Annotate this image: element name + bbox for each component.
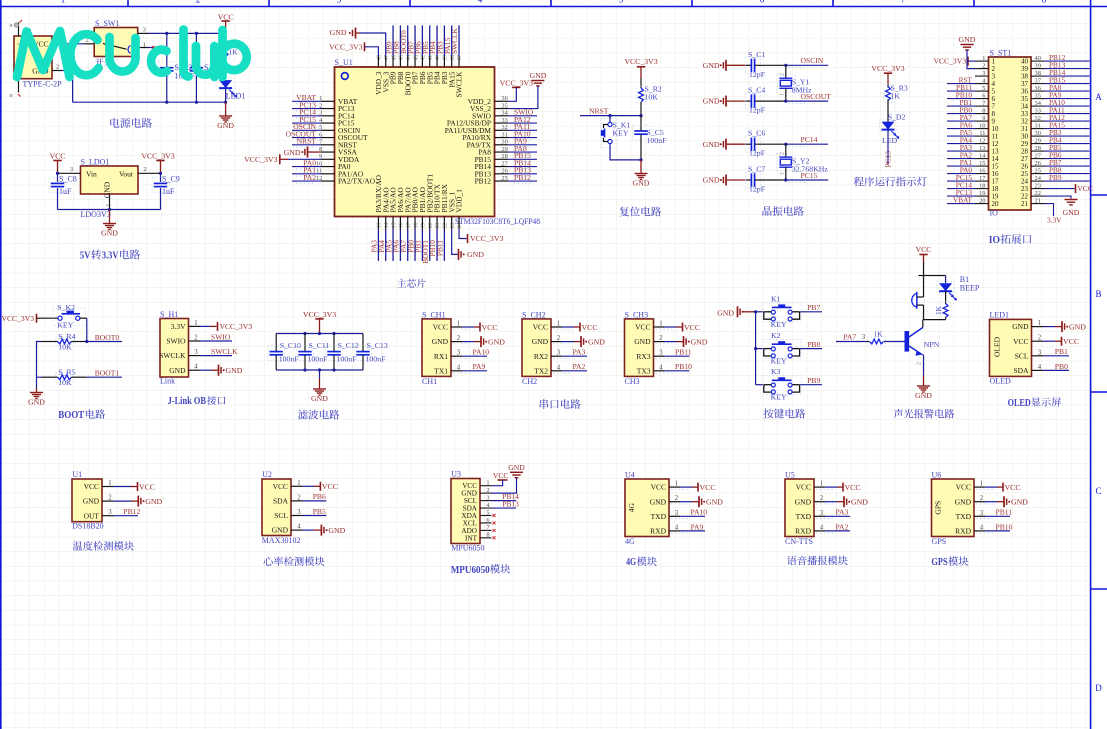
svg-text:17: 17 [979, 175, 986, 182]
resistor R2 10K [637, 79, 662, 116]
svg-text:KEY: KEY [57, 321, 73, 330]
svg-text:NRST: NRST [589, 107, 609, 116]
svg-text:TXD: TXD [796, 512, 812, 521]
svg-text:U4: U4 [625, 471, 635, 480]
power port VCC (power circuit) [218, 13, 234, 34]
title CN-TTS [787, 556, 848, 565]
svg-text:3: 3 [337, 0, 342, 5]
svg-text:47: 47 [384, 55, 390, 61]
svg-text:7: 7 [901, 0, 906, 5]
svg-text:3: 3 [297, 509, 301, 516]
svg-text:8: 8 [486, 532, 489, 539]
svg-text:14: 14 [979, 153, 986, 160]
svg-text:VCC_3V3: VCC_3V3 [244, 155, 277, 164]
svg-text:GND: GND [1063, 208, 1080, 217]
svg-text:38: 38 [450, 55, 456, 61]
svg-text:2: 2 [56, 64, 59, 71]
svg-text:1K: 1K [935, 305, 943, 315]
svg-text:VCC_3V3: VCC_3V3 [624, 57, 657, 66]
svg-text:1K: 1K [874, 331, 884, 339]
svg-text:GND: GND [703, 176, 720, 185]
svg-text:12pF: 12pF [749, 149, 766, 158]
net SWIO wire (J-Link pin 2) [200, 332, 232, 341]
U1 top net labels [384, 25, 459, 55]
svg-text:CN-TTS: CN-TTS [785, 537, 813, 546]
net BOOT0 wire [85, 333, 122, 343]
svg-text:PB10: PB10 [675, 362, 692, 371]
svg-text:21: 21 [435, 222, 441, 228]
svg-text:GND: GND [145, 497, 162, 506]
svg-text:Vin: Vin [86, 170, 97, 179]
svg-text:S_CH2: S_CH2 [522, 310, 546, 319]
key K2 [756, 331, 802, 366]
svg-text:SWIO: SWIO [211, 332, 231, 341]
svg-text:S_SW1: S_SW1 [95, 19, 119, 28]
svg-text:22: 22 [1035, 190, 1041, 197]
svg-text:GND: GND [529, 71, 546, 80]
net PB7 wire (key K1) [800, 303, 822, 312]
net PA10 wire (CH1 pin 3) [453, 348, 489, 359]
svg-text:3.3V: 3.3V [102, 250, 119, 262]
svg-text:VCC: VCC [915, 245, 931, 254]
svg-text:18: 18 [979, 183, 985, 190]
svg-text:SCL: SCL [1015, 351, 1029, 360]
svg-text:GND: GND [703, 140, 720, 149]
power port VCC_3V3 (U1 pin 48 VDD_3) [329, 42, 378, 55]
wire T1 GND down to bottom rail [52, 71, 73, 103]
svg-text:GND: GND [226, 366, 243, 375]
net PA3 wire (CH2 pin 3) [553, 348, 587, 359]
title main chip [397, 279, 426, 288]
power port VCC (CH1 pin 1) [453, 323, 498, 332]
svg-text:TX1: TX1 [434, 366, 448, 375]
svg-text:VCC_3V3: VCC_3V3 [220, 322, 253, 331]
svg-text:100nF: 100nF [366, 355, 387, 364]
svg-text:S_C8: S_C8 [59, 175, 77, 184]
svg-text:OSCIN: OSCIN [801, 56, 824, 65]
svg-text:VCC: VCC [1005, 483, 1021, 492]
svg-text:1: 1 [980, 481, 983, 488]
svg-text:1: 1 [780, 172, 786, 175]
svg-text:100nF: 100nF [279, 355, 300, 364]
svg-text:1: 1 [105, 203, 112, 206]
svg-text:LED: LED [882, 136, 898, 145]
svg-text:9: 9 [982, 115, 985, 122]
net PA7 wire with resistor R6 1K [836, 331, 903, 346]
svg-text:VCC_3V3: VCC_3V3 [470, 234, 503, 243]
power port VCC (U5 pin 1) [816, 483, 861, 492]
ground GND (C7 left) [703, 175, 746, 186]
svg-text:2: 2 [108, 495, 112, 502]
BOOT left bus wire [37, 342, 43, 389]
svg-text:D: D [1095, 683, 1102, 693]
svg-text:33: 33 [1035, 108, 1041, 115]
svg-text:4: 4 [557, 364, 561, 371]
svg-text:GND: GND [101, 229, 118, 238]
svg-text:S_R4: S_R4 [58, 332, 75, 341]
svg-text:SWCLK: SWCLK [455, 71, 464, 98]
svg-text:GND: GND [1012, 322, 1029, 331]
net OSCOUT wire [784, 92, 831, 103]
svg-text:34: 34 [1035, 100, 1042, 107]
power port VCC (OLED pin 2) [1043, 337, 1079, 346]
svg-text:30: 30 [1035, 130, 1041, 137]
svg-text:GND: GND [703, 97, 720, 106]
power port VCC (U6 pin 1) [976, 483, 1021, 492]
svg-text:1: 1 [297, 480, 300, 487]
transistor Q1 NPN [903, 320, 940, 376]
net PB6 wire (U2 pin 2) [303, 492, 327, 501]
svg-text:28: 28 [1035, 145, 1041, 152]
svg-text:GND: GND [634, 337, 651, 346]
svg-text:S_C4: S_C4 [748, 86, 765, 95]
key K1 [756, 294, 802, 329]
svg-text:1: 1 [820, 481, 823, 488]
power port VCC_3V3 (filter) [303, 310, 336, 333]
svg-text:SDA: SDA [273, 497, 289, 506]
svg-text:PB13: PB13 [502, 500, 519, 509]
svg-text:2: 2 [143, 166, 146, 173]
svg-text:3: 3 [659, 350, 663, 357]
svg-text:+: + [911, 297, 915, 304]
svg-text:PB9: PB9 [1049, 173, 1062, 182]
connector T1 TYPE-C-2P [10, 20, 63, 99]
svg-text:SDA: SDA [1013, 366, 1029, 375]
svg-text:20: 20 [992, 200, 1000, 208]
net PA3 wire (U5 pin 3) [816, 508, 850, 519]
svg-text:S_CH3: S_CH3 [625, 310, 649, 319]
U1 left pin names [338, 97, 376, 186]
svg-text:B: B [1095, 289, 1101, 299]
svg-text:GND: GND [703, 61, 720, 70]
svg-text:48: 48 [377, 55, 383, 61]
svg-text:GPS: GPS [932, 537, 947, 546]
svg-text:VCC: VCC [273, 482, 288, 491]
svg-text:RX1: RX1 [434, 352, 448, 361]
svg-text:1: 1 [659, 321, 662, 328]
capacitor C13 100nF [355, 334, 388, 371]
power port VCC (ST1 pin 23) [1045, 184, 1093, 193]
svg-text:42: 42 [421, 55, 427, 61]
svg-text:CH2: CH2 [522, 377, 537, 386]
svg-text:OLED: OLED [1008, 398, 1031, 409]
capacitor C2 100nF [159, 33, 196, 102]
capacitor C4 12pF [746, 86, 786, 115]
svg-text:25: 25 [1035, 168, 1041, 175]
svg-text:S_LDO1: S_LDO1 [81, 158, 110, 167]
svg-text:VCC: VCC [1063, 337, 1079, 346]
capacitor C11 100nF [297, 334, 330, 371]
svg-text:VCC_3V3: VCC_3V3 [934, 57, 967, 66]
title J-Link OB port [168, 396, 226, 407]
svg-text:27: 27 [501, 160, 508, 167]
wire LDO pin 2 Vout [138, 166, 162, 175]
svg-text:2: 2 [1038, 335, 1042, 342]
svg-text:PA2: PA2 [573, 362, 586, 371]
svg-text:OLED: OLED [990, 376, 1012, 385]
svg-text:4G: 4G [625, 537, 635, 546]
crystal Y2 32.768KHz [777, 144, 829, 180]
svg-text:VCC: VCC [651, 483, 666, 492]
net PC15 wire [784, 171, 828, 182]
svg-text:23: 23 [1035, 183, 1041, 190]
svg-text:GND: GND [103, 181, 112, 198]
svg-text:VCC: VCC [218, 13, 234, 22]
svg-text:U2: U2 [262, 470, 272, 479]
svg-text:30: 30 [501, 139, 507, 146]
svg-text:GND: GND [633, 179, 650, 188]
svg-text:U1: U1 [72, 470, 82, 479]
svg-text:VDD_1: VDD_1 [455, 189, 464, 213]
svg-text:4: 4 [194, 364, 198, 371]
svg-text:26: 26 [1035, 160, 1041, 167]
svg-text:1: 1 [557, 321, 560, 328]
svg-text:24: 24 [457, 222, 463, 228]
svg-text:K3: K3 [771, 367, 781, 376]
alarm top wire [919, 262, 946, 297]
svg-text:GND: GND [650, 497, 667, 506]
svg-text:40: 40 [435, 55, 441, 61]
svg-text:2: 2 [917, 362, 923, 365]
svg-text:S_C7: S_C7 [748, 165, 765, 174]
ground GND (BOOT) [28, 388, 45, 407]
ground GND (C4 left) [703, 96, 746, 107]
power port VCC_3V3 (J-Link pin 1) [200, 322, 252, 331]
svg-text:46: 46 [391, 55, 397, 61]
svg-text:1: 1 [780, 93, 786, 96]
wire LDO pin 3 Vin [56, 166, 81, 175]
power port VCC_3V3 (U1 pin 36 VDD_2) [500, 79, 533, 102]
svg-text:4: 4 [659, 364, 663, 371]
svg-text:PA9: PA9 [691, 522, 704, 531]
svg-text:PB11: PB11 [675, 348, 692, 357]
U1 right pins 36-25 [495, 95, 509, 182]
net PA2 wire (U5 pin 4) [816, 522, 850, 533]
ground GND (power circuit) [217, 102, 234, 130]
svg-text:TX3: TX3 [637, 366, 651, 375]
svg-text:VCC: VCC [582, 323, 598, 332]
svg-text:2: 2 [780, 73, 786, 76]
svg-text:LED1: LED1 [226, 92, 246, 101]
svg-text:GND: GND [467, 250, 484, 259]
svg-text:RXD: RXD [650, 527, 666, 536]
svg-text:36: 36 [1035, 85, 1041, 92]
svg-text:GND: GND [328, 526, 345, 535]
MCUclub logo [17, 30, 247, 78]
svg-text:23: 23 [450, 222, 456, 228]
svg-text:3: 3 [557, 350, 561, 357]
svg-text:19: 19 [979, 190, 985, 197]
svg-text:3: 3 [108, 509, 112, 516]
svg-text:PA7: PA7 [843, 333, 856, 342]
svg-text:KEY: KEY [771, 357, 787, 366]
svg-text:10K: 10K [645, 93, 659, 102]
svg-text:3: 3 [820, 510, 824, 517]
svg-text:34: 34 [501, 110, 508, 117]
svg-text:VCC_3V3: VCC_3V3 [2, 314, 35, 323]
power port VCC (U1 DS18B20 pin 1) [114, 482, 156, 491]
ground GND (U1 DS18B20 pin 2) [114, 496, 163, 507]
power port VCC (CH3 pin 1) [656, 323, 701, 332]
svg-text:GND: GND [272, 526, 289, 535]
svg-text:GPS: GPS [934, 501, 943, 515]
svg-text:TXD: TXD [651, 512, 667, 521]
svg-text:11: 11 [979, 130, 985, 137]
net PA10 wire (U4 pin 3) [671, 508, 707, 519]
svg-text:S_U1: S_U1 [335, 58, 353, 67]
svg-text:S_K2: S_K2 [57, 303, 75, 312]
svg-text:GND: GND [432, 337, 449, 346]
net PB11 wire (CH3 pin 3) [656, 348, 692, 359]
svg-text:3: 3 [143, 27, 146, 34]
ground GND (ST1 pin 2) [959, 35, 976, 69]
svg-text:PB8: PB8 [807, 340, 820, 349]
svg-text:1: 1 [194, 320, 197, 327]
svg-text:CH3: CH3 [625, 377, 640, 386]
U1 left net wires and labels [286, 93, 321, 183]
module CH3 (CH3) [625, 310, 665, 386]
svg-text:VCC: VCC [139, 482, 155, 491]
svg-text:2: 2 [196, 0, 201, 5]
svg-text:32: 32 [501, 124, 507, 131]
svg-text:12pF: 12pF [749, 106, 766, 115]
svg-text:PA2: PA2 [303, 173, 316, 182]
ST1 left net wires and labels [947, 75, 975, 204]
svg-text:PA10: PA10 [473, 348, 490, 357]
crystal Y1 8MHz [777, 65, 813, 101]
svg-text:GND: GND [955, 497, 972, 506]
bottom rail wire of power circuit [73, 101, 228, 104]
resistor R7 1K (alarm collector) [924, 302, 951, 320]
resistor R1 [221, 33, 238, 78]
svg-text:PB12: PB12 [475, 177, 492, 186]
ground GND (U2 pin 4) [303, 525, 346, 536]
ground GND (U1 pin 23 VSS_1) [452, 229, 485, 260]
net PB10 wire (U6 pin 4) [976, 522, 1013, 533]
svg-text:14: 14 [384, 222, 390, 228]
ground GND (OLED pin 1) [1043, 321, 1086, 332]
svg-text:13: 13 [979, 145, 985, 152]
buzzer B1 BEEP [911, 275, 980, 320]
svg-text:S_H1: S_H1 [160, 310, 178, 319]
net PA9 wire (CH1 pin 4) [453, 362, 487, 373]
svg-text:GND: GND [915, 391, 932, 400]
ground GND (U5 pin 2) [816, 496, 868, 507]
svg-text:PA2: PA2 [836, 522, 849, 531]
svg-text:2: 2 [982, 63, 985, 70]
net NRST wire [580, 107, 643, 118]
ground GND (U1 pin 8 VSSA) [284, 147, 321, 158]
svg-text:S_C6: S_C6 [748, 129, 765, 138]
svg-text:LDO3V3: LDO3V3 [81, 210, 111, 219]
svg-text:4: 4 [478, 0, 483, 5]
power port VCC (alarm) [915, 245, 931, 262]
svg-text:26: 26 [501, 168, 507, 175]
net PA2 wire (CH2 pin 4) [553, 362, 587, 373]
svg-text:INT: INT [465, 534, 478, 542]
svg-text:29: 29 [1035, 138, 1041, 145]
svg-text:4G: 4G [627, 503, 636, 513]
svg-text:U3: U3 [451, 470, 461, 479]
svg-text:4: 4 [675, 524, 679, 531]
resistor R5 10K [42, 368, 87, 388]
svg-text:VCC: VCC [493, 471, 509, 480]
svg-text:3: 3 [1038, 349, 1042, 356]
module U5 (CN-TTS) [785, 471, 825, 547]
svg-text:GND: GND [1069, 322, 1086, 331]
svg-text:2: 2 [557, 335, 561, 342]
svg-text:GND: GND [532, 337, 549, 346]
svg-text:25: 25 [501, 175, 507, 182]
ground GND (U6 pin 2) [976, 496, 1028, 507]
svg-text:1: 1 [982, 55, 985, 62]
title sound-light alarm circuit [894, 409, 955, 418]
ST1 left pins 1-20 [975, 55, 999, 208]
svg-text:22: 22 [443, 222, 449, 228]
svg-text:VCC: VCC [635, 323, 650, 332]
svg-text:VCC_3V3: VCC_3V3 [141, 152, 174, 161]
module U6 (GPS) [932, 471, 986, 547]
svg-text:DS18B20: DS18B20 [72, 522, 104, 531]
svg-text:S_C9: S_C9 [162, 175, 180, 184]
resistor R4 10K [42, 332, 87, 352]
svg-text:S_C13: S_C13 [367, 341, 388, 350]
svg-text:GND: GND [851, 498, 868, 507]
wire SW1 pin 3 to VCC rail [138, 32, 226, 35]
svg-text:PC15: PC15 [801, 171, 818, 180]
svg-text:PB5: PB5 [313, 507, 326, 516]
title 4G [626, 556, 657, 568]
svg-text:40: 40 [1035, 55, 1041, 62]
title program running indicator [854, 177, 927, 187]
net SWCLK wire (J-Link pin 3) [200, 347, 238, 356]
svg-text:GND: GND [217, 121, 234, 130]
title OLED display [1008, 397, 1061, 408]
svg-text:PB7: PB7 [807, 303, 820, 312]
svg-text:18: 18 [413, 222, 419, 228]
svg-text:PA3: PA3 [573, 348, 586, 357]
svg-text:3: 3 [194, 349, 198, 356]
svg-text:4: 4 [457, 364, 461, 371]
svg-text:IO: IO [990, 209, 999, 218]
svg-text:VCC: VCC [845, 483, 861, 492]
title key circuit [763, 409, 805, 419]
ground GND (reset) [633, 158, 650, 187]
svg-text:1uF: 1uF [59, 187, 72, 196]
net PB8 wire (key K2) [800, 340, 822, 349]
svg-text:GND: GND [706, 498, 723, 507]
ground GND (U4 pin 2) [671, 496, 723, 507]
title power circuit [110, 118, 152, 128]
svg-text:CH1: CH1 [422, 377, 437, 386]
svg-text:3: 3 [675, 510, 679, 517]
svg-text:STM32F103C8T6_LQFP48: STM32F103C8T6_LQFP48 [455, 217, 540, 226]
U1 bottom net labels [370, 229, 445, 264]
svg-text:PB1: PB1 [1055, 347, 1068, 356]
ground GND (CH3 pin 2) [656, 336, 708, 347]
svg-text:PB12: PB12 [514, 173, 531, 182]
svg-text:S_R5: S_R5 [58, 368, 75, 377]
svg-text:27: 27 [1035, 153, 1042, 160]
power port VCC_3V3 (indicator) [871, 64, 904, 84]
svg-text:VBAT: VBAT [953, 195, 973, 204]
svg-text:3: 3 [862, 334, 866, 341]
ground GND (CH2 pin 2) [553, 336, 605, 347]
svg-text:NPN: NPN [924, 340, 940, 349]
svg-text:2: 2 [675, 495, 679, 502]
svg-text:VCC: VCC [700, 483, 716, 492]
svg-text:PA10: PA10 [691, 508, 708, 517]
